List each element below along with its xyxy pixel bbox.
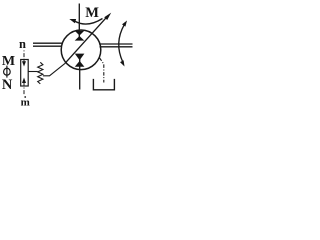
rotation direction arrow bbox=[119, 25, 124, 62]
svg-text:N: N bbox=[2, 77, 13, 93]
variable displacement arrow bbox=[65, 18, 107, 64]
piston rod wire bbox=[28, 71, 38, 73]
arrow n into cylinder bbox=[23, 59, 25, 62]
shaft left double line bbox=[33, 42, 62, 44]
centerline n (dash-dot) bbox=[23, 50, 25, 59]
arrow m-dot into cylinder bbox=[23, 83, 25, 87]
svg-text:n: n bbox=[19, 37, 26, 51]
torque arc arrow M bbox=[75, 19, 103, 25]
shaft right double line bbox=[99, 43, 132, 45]
wire bottom port line bbox=[79, 54, 81, 90]
triangle flow symbol top inward bbox=[75, 36, 85, 41]
triangle flow symbol bottom outward bbox=[75, 61, 85, 67]
tank symbol bbox=[93, 79, 114, 90]
svg-text:M: M bbox=[2, 54, 15, 69]
linkage wire to swash arrow bbox=[43, 64, 65, 76]
spring bbox=[38, 62, 43, 84]
svg-text:M: M bbox=[85, 5, 99, 21]
triangle flow symbol bottom inward bbox=[75, 54, 85, 61]
triangle flow symbol top outward bbox=[75, 31, 85, 36]
svg-text:m: m bbox=[21, 97, 30, 109]
wire top port line bbox=[78, 4, 80, 41]
pump circle U1 bbox=[61, 30, 101, 70]
leakage drain line (dashed) bbox=[100, 58, 104, 83]
label phi (swivel angle) bbox=[4, 66, 11, 78]
centerline m-dot (dash-dot) bbox=[23, 88, 25, 96]
control cylinder rect bbox=[21, 60, 29, 87]
